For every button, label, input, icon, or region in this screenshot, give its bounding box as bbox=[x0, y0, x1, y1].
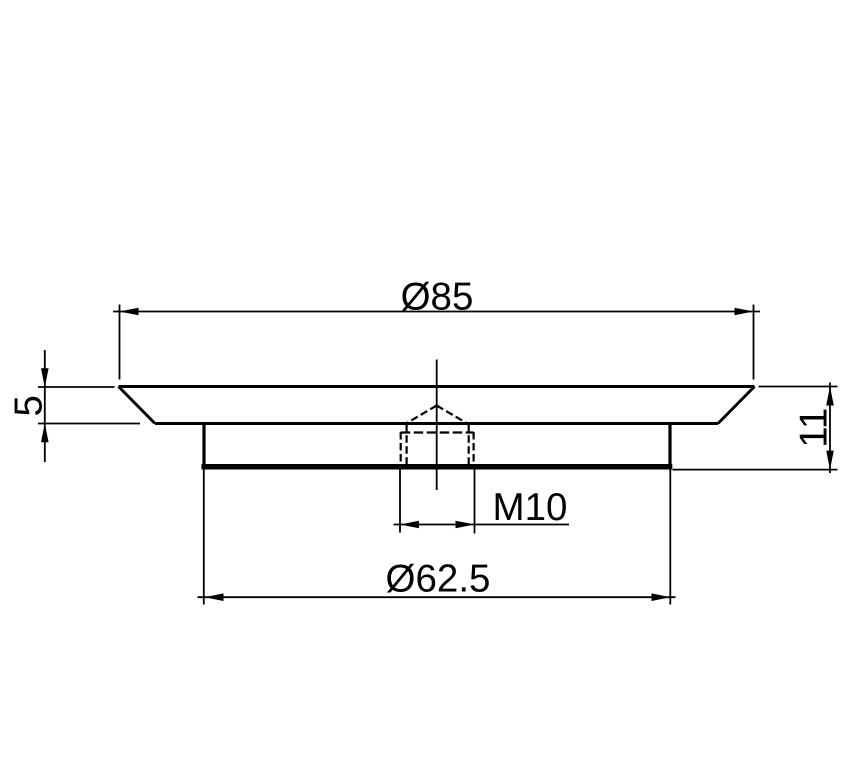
svg-text:Ø85: Ø85 bbox=[401, 276, 474, 319]
svg-text:11: 11 bbox=[792, 408, 835, 448]
svg-text:5: 5 bbox=[7, 395, 50, 416]
svg-text:M10: M10 bbox=[493, 486, 568, 529]
svg-text:Ø62.5: Ø62.5 bbox=[386, 558, 491, 601]
